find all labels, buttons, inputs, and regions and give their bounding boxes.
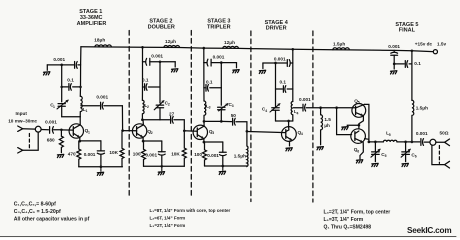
node: stage5 bypass junction: [393, 63, 396, 66]
wire: stage2 right column: [159, 62, 161, 103]
inductor 12uh on rail (stage 2): [164, 45, 180, 47]
node: C5 tap: [374, 141, 377, 144]
ground (stage3 bypass): [233, 70, 239, 73]
svg-text:0.001: 0.001: [45, 119, 57, 124]
wire+ground (stage5 bypass): [393, 64, 395, 69]
wire: emitter to bypass cap: [80, 140, 101, 142]
node: 0.1 right: [79, 86, 82, 89]
svg-text:4: 4: [301, 132, 303, 136]
wire: L1 tap to coupling: [81, 105, 100, 107]
wire: junction to Q6: [358, 125, 360, 129]
svg-text:2: 2: [147, 105, 149, 109]
wire: stage4 tank bottom junction: [276, 120, 293, 122]
wire: L4 tap to coupling: [293, 107, 302, 109]
node: Q3 base: [183, 129, 186, 132]
capacitor 0.001 rail bypass (stage5): [391, 50, 398, 64]
wire: Q4 collector stub: [288, 121, 290, 127]
wire: Q4 base lead: [247, 132, 286, 133]
choke 1.5uh (base return): [321, 108, 323, 145]
choke 1.5uh (stage5 collector feed): [412, 100, 414, 142]
capacitor 0.001 emitter bypass (stage3): [219, 142, 226, 166]
svg-text:100: 100: [133, 152, 141, 157]
stage 1 title: [77, 9, 107, 27]
inductor L5: [383, 140, 397, 142]
wire: Q3 emitter: [203, 139, 205, 142]
svg-text:L₂=6T, 1/4” Form: L₂=6T, 1/4” Form: [150, 216, 186, 221]
node: rail stage5: [411, 49, 414, 52]
svg-text:C₃,C₄,C₅ = 1.5-20pf: C₃,C₄,C₅ = 1.5-20pf: [14, 209, 61, 215]
input terminal fork (top): [18, 126, 23, 131]
svg-text:6: 6: [415, 155, 417, 159]
transistor Q6: [351, 129, 369, 144]
svg-text:All other capacitor values in: All other capacitor values in pf: [14, 217, 90, 223]
wire+ground (stage3 bypass): [236, 63, 238, 68]
input jack shield drop: [23, 132, 39, 150]
svg-text:2: 2: [168, 103, 170, 107]
capacitor 50 interstage 3-4: [233, 118, 247, 131]
capacitor 0.001 rail bypass (stage4): [263, 60, 293, 67]
ground (Q5 emitter): [342, 127, 348, 130]
wire: emitter to bypass (stage3): [204, 141, 223, 143]
ground (stage2 bypass): [172, 69, 178, 72]
variable capacitor C3: [218, 103, 229, 121]
bottom border line: [0, 236, 456, 238]
svg-text:27: 27: [169, 111, 175, 116]
transistor Q1: [69, 124, 83, 138]
input labels: [8, 111, 37, 124]
svg-text:0.1: 0.1: [414, 61, 421, 66]
stage separator dashed line 3: [250, 31, 252, 202]
svg-text:18μh: 18μh: [94, 38, 105, 43]
svg-text:5: 5: [358, 101, 360, 105]
svg-text:+15v dc: +15v dc: [415, 41, 433, 46]
node: bottom junction stage1: [100, 165, 103, 168]
svg-text:0.1: 0.1: [280, 80, 287, 85]
wire: stage1 tank bottom: [62, 116, 80, 118]
input terminal fork (bottom): [18, 148, 23, 153]
label 50 ohm: [440, 131, 449, 136]
node: Q5/Q6 emitter junction: [358, 124, 361, 127]
capacitor 0.1 (stage1): [62, 84, 81, 91]
capacitor 0.001 emitter bypass (stage2): [158, 141, 165, 166]
svg-text:L₃=2T, 1/4” Form: L₃=2T, 1/4” Form: [150, 223, 186, 228]
wire: stage2 main column: [141, 47, 143, 100]
capacitor 0.001 rail bypass (stage2): [143, 58, 176, 65]
svg-text:0.001: 0.001: [388, 44, 400, 49]
svg-text:5: 5: [385, 154, 387, 158]
svg-text:μh: μh: [324, 123, 330, 128]
svg-text:0.001: 0.001: [416, 131, 428, 136]
stage 4 title: [265, 20, 289, 32]
inductor L4: [291, 102, 293, 122]
svg-text:1.5v: 1.5v: [437, 42, 447, 47]
svg-text:10K: 10K: [109, 150, 118, 155]
variable capacitor C6: [401, 142, 411, 162]
svg-text:0.001: 0.001: [145, 153, 157, 158]
+15v dc terminal: [433, 50, 437, 54]
wire+ground for bypass (stage1): [46, 65, 48, 70]
wire+ground (stage4 bypass): [262, 63, 264, 69]
svg-text:1: 1: [86, 109, 88, 113]
wire: input top to jack: [23, 128, 36, 130]
wire: stage3 collector junction: [204, 120, 221, 122]
node: collector junction stage3: [203, 120, 206, 123]
wire: Q1 collector to tank: [79, 117, 81, 125]
wire: junction to 50pf: [221, 120, 231, 122]
transistor Q4: [282, 127, 297, 142]
wire: to Q1 base: [61, 129, 73, 131]
wire: junction to ground: [347, 124, 359, 127]
ground (stage1 emitter): [100, 167, 102, 172]
svg-text:0.001: 0.001: [53, 57, 65, 62]
capacitor 0.001 rail bypass (stage3): [204, 59, 237, 66]
capacitor 0.001 input coupling: [50, 127, 62, 134]
node: choke to output line: [411, 141, 414, 144]
stage 2 title: [148, 19, 175, 31]
capacitor 0.1 (stage4): [276, 86, 293, 93]
node: stage3 bottom: [221, 165, 224, 168]
input shield dashed link: [28, 134, 30, 150]
node: stage1 bypass junction: [60, 64, 63, 67]
svg-text:10 mw–30mc: 10 mw–30mc: [8, 118, 37, 123]
wire: Q1 emitter: [79, 137, 81, 141]
wire: Q2 base lead: [123, 130, 137, 132]
wire: coupling into Q5/Q6 bases: [321, 107, 356, 109]
capacitor 0.1 (stage5): [394, 61, 412, 68]
svg-text:0.1: 0.1: [67, 78, 74, 83]
output terminal fork (bottom): [445, 161, 450, 168]
variable capacitor C5: [371, 142, 381, 162]
variable capacitor C4: [270, 103, 280, 121]
wire: Q2 emitter: [142, 137, 144, 141]
svg-text:DOUBLER: DOUBLER: [148, 25, 175, 31]
svg-text:TRIPLER: TRIPLER: [207, 25, 231, 31]
output jack circle: [430, 139, 436, 145]
transistor Q5: [352, 104, 366, 118]
wire: stage2 collector junction: [142, 119, 160, 121]
svg-text:L₄=2T, 1/4” Form, top center: L₄=2T, 1/4” Form, top center: [324, 210, 391, 216]
resistor 680: [59, 131, 63, 152]
svg-text:680: 680: [47, 138, 55, 143]
ground (stage5 bypass): [391, 71, 397, 74]
inductor 12uh on rail (stage 3): [223, 46, 239, 48]
svg-text:AMPLIFIER: AMPLIFIER: [77, 21, 107, 27]
inductor 1.5uh on rail (stage 5 feed): [333, 48, 349, 50]
wire: stage3 right column: [220, 63, 222, 106]
node: stage2 bottom: [160, 165, 163, 168]
node: collector junction stage2: [141, 118, 144, 121]
variable capacitor C1: [57, 100, 69, 117]
node: Q1 base: [60, 128, 63, 131]
stage separator dashed line 4: [312, 31, 314, 202]
capacitor 0.001 interstage 1-2: [101, 102, 123, 109]
ground (stage1 bypass): [44, 72, 50, 75]
svg-text:L₁=8T, 1/4” Form with core, to: L₁=8T, 1/4” Form with core, top center: [150, 208, 231, 213]
node: rail stage3: [202, 47, 205, 50]
wire: Q4 emitter to ground: [289, 141, 291, 146]
wire: jack to output fork: [436, 141, 445, 143]
svg-text:4: 4: [265, 109, 267, 113]
node: stage4 bypass junction: [274, 62, 277, 65]
wire: stage3 bottom: [205, 165, 247, 167]
svg-text:0.001: 0.001: [84, 152, 96, 157]
node: rail stage4: [291, 48, 294, 51]
node: 0.1 left: [60, 86, 63, 89]
svg-text:0.001: 0.001: [213, 55, 225, 60]
ground (base choke): [317, 147, 323, 150]
wire: Q5 emitter to common node: [359, 116, 364, 125]
node: Q3 emitter: [203, 141, 206, 144]
node: output line left: [368, 141, 371, 144]
capacitor 0.001 output coupling: [421, 139, 430, 146]
svg-text:2: 2: [151, 131, 153, 135]
node: Q4 collector junction: [287, 120, 290, 123]
stage separator dashed line 1: [128, 31, 130, 197]
svg-text:0.1: 0.1: [206, 80, 213, 85]
svg-text:FINAL: FINAL: [399, 28, 416, 34]
output shield dashed link: [438, 146, 440, 164]
svg-text:C₁,C₂,C₆,= 8-60pf: C₁,C₂,C₆,= 8-60pf: [14, 202, 56, 208]
svg-text:10K: 10K: [171, 151, 180, 156]
ground (Q6 emitter): [356, 160, 362, 163]
svg-text:0.001: 0.001: [151, 54, 163, 59]
inductor L1: [80, 96, 82, 117]
inductor L3: [204, 101, 206, 121]
wire: Q5 collector to output column: [364, 104, 369, 141]
wire: Q3 collector: [203, 121, 205, 126]
svg-text:Input: Input: [16, 111, 28, 116]
node: stage2 bypass junction: [159, 60, 162, 63]
watermark SeekIC.com: [407, 226, 451, 235]
svg-text:0.001: 0.001: [274, 56, 286, 61]
wire: stage4 main column: [292, 49, 294, 101]
node: Q1 emitter: [78, 140, 81, 143]
capacitor 0.001 rail bypass (stage1): [47, 62, 80, 69]
svg-text:12μh: 12μh: [224, 40, 235, 45]
wire: Q2 collector: [142, 120, 144, 125]
svg-text:0.1: 0.1: [142, 77, 149, 82]
wire: stage4 left column: [275, 63, 277, 108]
inductor L2: [142, 100, 144, 120]
node: C3 bottom: [220, 120, 223, 123]
wire: stage3 main column: [203, 48, 205, 101]
svg-text:50: 50: [231, 113, 237, 118]
node: Q4 base: [246, 130, 249, 133]
wire: stage1 left column: [61, 65, 63, 102]
ground (C6): [402, 163, 408, 166]
wire: stage5 choke column: [411, 51, 413, 100]
svg-text:3: 3: [209, 106, 211, 110]
svg-text:5: 5: [389, 133, 391, 137]
wire: jack to input coupling cap: [41, 129, 48, 131]
svg-text:470: 470: [68, 151, 76, 156]
ground (stage2 emitter): [161, 166, 163, 170]
svg-text:L₅=3T, 1/4” Form: L₅=3T, 1/4” Form: [324, 217, 364, 223]
svg-text:3: 3: [212, 131, 214, 135]
ground (680): [57, 154, 63, 157]
transistor Q3: [193, 125, 207, 139]
ground (C5): [372, 163, 378, 166]
variable capacitor C2: [154, 100, 164, 120]
node: stage3 bypass junction: [220, 61, 223, 64]
svg-text:4: 4: [297, 111, 299, 115]
resistor 100 (stage2): [142, 141, 146, 166]
note: coil and transistor data right: [324, 210, 391, 231]
capacitor 0.001 interstage 4-5: [303, 104, 321, 111]
choke 1.5uh (Q4 base bias): [247, 133, 248, 167]
wire: stage2 bottom: [144, 165, 185, 167]
wire: +15v supply rail: [81, 47, 433, 52]
stage 5 title: [395, 22, 418, 34]
svg-text:1.5μh: 1.5μh: [416, 105, 428, 110]
wire: Q3 base lead: [184, 130, 197, 132]
note: capacitor values left: [14, 202, 90, 223]
wire: down to Q6 base: [337, 108, 352, 135]
capacitor 0.1 (stage3): [204, 85, 221, 92]
wire: Q6 emitter to ground: [360, 142, 363, 159]
svg-text:50Ω: 50Ω: [440, 131, 449, 136]
ground (stage3 emitter): [222, 166, 224, 170]
node: Q2 emitter: [142, 140, 145, 143]
node: choke tap: [319, 106, 322, 109]
input jack circle: [35, 126, 41, 132]
output terminal fork (top): [445, 139, 450, 146]
wire: drop to Q2 base: [121, 106, 123, 131]
capacitor 0.001 emitter bypass (stage1): [97, 141, 104, 167]
svg-text:1.5μh: 1.5μh: [333, 41, 345, 46]
ground (Q4 emitter): [286, 148, 292, 151]
ground (stage4 bypass): [259, 70, 265, 73]
svg-text:SeekIC.com: SeekIC.com: [407, 226, 451, 235]
resistor 10K (stage1 bias): [120, 132, 124, 167]
svg-text:1.5: 1.5: [324, 117, 331, 122]
capacitor 27 interstage 2-3: [171, 116, 185, 130]
node: base split: [335, 106, 338, 109]
svg-text:3: 3: [232, 104, 234, 108]
svg-text:0.001: 0.001: [299, 97, 311, 102]
wire: emitter to bypass (stage2): [143, 140, 162, 142]
capacitor 0.1 (stage2): [143, 84, 161, 91]
svg-text:1: 1: [53, 105, 55, 109]
note: coil data center: [150, 208, 231, 228]
resistor 10K (stage2 bias): [182, 132, 186, 166]
node: C6 tap: [404, 141, 407, 144]
wire: junction to 27pf: [160, 119, 170, 121]
node: Q2 base: [121, 129, 124, 132]
wire: rail drop, stage1 right column: [79, 47, 82, 96]
svg-text:6: 6: [357, 149, 359, 153]
output jack shield drop: [432, 145, 445, 164]
svg-text:0.001: 0.001: [96, 95, 108, 100]
wire+ground (stage2 bypass): [174, 62, 176, 67]
svg-text:1: 1: [88, 130, 90, 134]
wire: stage1 emitter net bottom: [79, 166, 123, 168]
resistor 470: [77, 141, 81, 167]
svg-text:12μh: 12μh: [165, 39, 176, 44]
inductor 18uh on rail: [95, 45, 111, 47]
svg-text:1.5μh: 1.5μh: [234, 154, 246, 159]
stage separator dashed line 2: [190, 31, 192, 197]
svg-text:100: 100: [194, 152, 202, 157]
transistor Q2: [132, 124, 146, 138]
svg-text:Q₁ Thru Q₆=SM2498: Q₁ Thru Q₆=SM2498: [324, 224, 372, 230]
svg-text:0.001: 0.001: [207, 153, 219, 158]
node: rail stage2: [141, 46, 144, 49]
svg-text:DRIVER: DRIVER: [266, 26, 287, 32]
wire: output line: [369, 141, 420, 143]
stage 3 title: [207, 19, 231, 31]
resistor 100 (stage3): [203, 142, 207, 166]
